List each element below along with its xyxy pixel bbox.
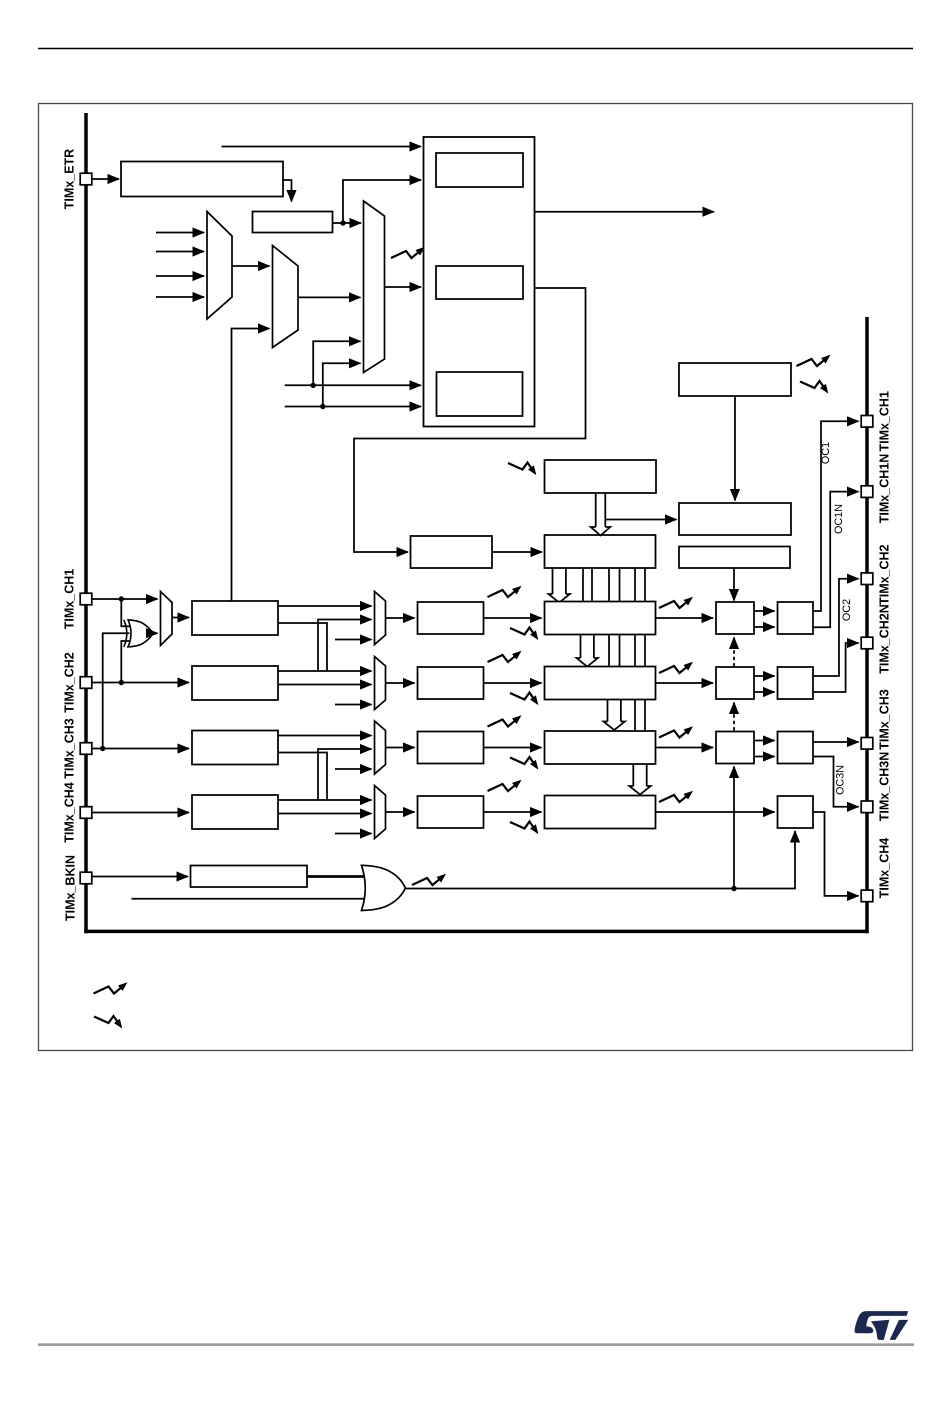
chip boundary bus (left) xyxy=(84,113,88,933)
wire CCR1 to comparator xyxy=(656,617,714,619)
node TI2FP2 junction xyxy=(320,404,325,409)
wire xor to select mux xyxy=(153,632,158,634)
wire TI2FP1 crossover up xyxy=(278,620,372,672)
wire TI1FP1 to trigger mux xyxy=(313,341,360,385)
pin TIMx_ETR xyxy=(80,173,92,185)
channel 2 prescaler ICPS box xyxy=(418,667,484,699)
wire CH3 to xor xyxy=(103,633,130,748)
output stage 1 box xyxy=(778,602,814,634)
wire channel 1 prescaler to capture register xyxy=(484,617,542,619)
wire TI3FP4 crossover down xyxy=(278,753,327,801)
hollow compare arrow to CCR3 xyxy=(607,700,609,722)
capture/compare register 4 box xyxy=(545,796,656,829)
svg-text:TIMx_CH3: TIMx_CH3 xyxy=(63,718,77,778)
channel 2 input mux xyxy=(375,657,386,710)
wire TI1F_ED to TRC mux xyxy=(232,329,270,602)
BKIN polarity box xyxy=(191,866,308,888)
xor gate TI1 selection xyxy=(128,620,153,647)
wire OC2 to pin xyxy=(813,579,859,676)
pin TIMx_CH4 (output) xyxy=(861,890,873,902)
pin TIMx_CH1 xyxy=(80,593,92,605)
wire repetition to output control xyxy=(734,396,736,501)
svg-text:TIMx_ETR: TIMx_ETR xyxy=(63,149,77,209)
channel 3 input mux xyxy=(375,721,386,774)
wire break to OC4 stage xyxy=(734,831,795,889)
node CH3 junction xyxy=(100,746,105,751)
wire break gate output xyxy=(405,888,734,890)
channel 3 prescaler ICPS box xyxy=(418,732,484,764)
pin TIMx_CH2 (output) xyxy=(861,573,873,585)
wire channel 4 mux to prescaler xyxy=(386,811,415,813)
mux TRC selection xyxy=(273,246,299,348)
counter compare bus lines xyxy=(582,568,584,603)
wire CH1 to xor xyxy=(121,599,129,626)
svg-text:TIMx_CH2: TIMx_CH2 xyxy=(63,652,77,712)
wire ITR1 stub xyxy=(156,251,204,253)
pin TIMx_CH3 xyxy=(80,743,92,755)
trigger controller sub-box xyxy=(436,153,523,187)
svg-text:TIMx_CH4: TIMx_CH4 xyxy=(63,782,77,842)
wire OC3N to pin xyxy=(813,757,859,807)
wire OC1N to pin xyxy=(813,492,859,628)
wire TRC stub to channel 4 mux xyxy=(335,833,372,835)
svg-text:OC3N: OC3N xyxy=(835,765,847,795)
wire CH4 pin to filter xyxy=(92,812,189,814)
wire OC3 to pin xyxy=(813,741,859,743)
wire channel 3 mux to prescaler xyxy=(386,747,415,749)
capture/compare register 2 box xyxy=(545,667,656,700)
chip boundary bus (right) xyxy=(865,317,869,933)
output stage 2 box xyxy=(778,667,814,699)
zigzag break interrupt xyxy=(412,878,440,885)
node CH1 junction xyxy=(119,596,124,601)
zigzag auto-reload update event xyxy=(508,463,532,470)
channel 1 prescaler ICPS box xyxy=(418,602,484,634)
chip boundary bus (bottom) xyxy=(84,930,869,934)
zigzag channel 4 capture interrupt xyxy=(488,784,516,791)
pin TIMx_CH1N (output) xyxy=(861,486,873,498)
wire TI2FP2 to encoder interface xyxy=(285,406,421,408)
capture/compare register 3 box xyxy=(545,731,656,764)
wire comparator 3 to output stage (b) xyxy=(754,756,775,758)
wire update to output-control xyxy=(606,519,677,521)
channel 4 prescaler ICPS box xyxy=(418,796,484,828)
node break junction xyxy=(731,886,736,891)
prescaler PSC box xyxy=(411,536,493,568)
zigzag trigger interrupt xyxy=(391,251,419,258)
svg-text:TIMx_CH4: TIMx_CH4 xyxy=(878,838,892,898)
dashed link OC2 to OC1 stage xyxy=(733,638,735,667)
wire ITR3 stub xyxy=(156,296,204,298)
encoder interface sub-box xyxy=(437,372,523,416)
zigzag compare 4 interrupt xyxy=(659,795,687,802)
channel 1 input mux xyxy=(375,592,386,645)
or gate break request xyxy=(362,865,406,910)
wire CH3 pin to filter xyxy=(92,748,189,750)
wire CCR3 to comparator xyxy=(656,747,714,749)
wire select mux to CH1 filter xyxy=(172,617,189,619)
svg-text:TIMx_BKIN: TIMx_BKIN xyxy=(64,855,78,921)
controller block (trigger/slave-mode/encoder) xyxy=(424,137,535,427)
node TI1FP1 junction xyxy=(311,383,316,388)
wire OC2N to pin xyxy=(813,643,859,692)
zigzag compare 1 interrupt xyxy=(659,601,687,608)
wire CK_CNT xyxy=(492,551,542,553)
counter CNT box xyxy=(545,535,656,568)
zigzag channel 3 capture event xyxy=(510,757,534,764)
svg-text:OC2: OC2 xyxy=(841,599,853,621)
zigzag channel 2 capture event xyxy=(510,693,534,700)
wire polarity box to input filter box xyxy=(283,180,292,202)
wire crossover to mux 4 xyxy=(318,799,372,801)
hollow update arrow ARR to CNT xyxy=(595,493,597,527)
pin TIMx_CH2N (output) xyxy=(861,637,873,649)
wire channel 4 prescaler to capture register xyxy=(484,811,542,813)
hollow compare arrow to CCR4 xyxy=(632,764,634,786)
wire TRC to trigger mux xyxy=(298,296,361,298)
node ETRF junction xyxy=(340,220,345,225)
slave mode controller sub-box xyxy=(436,266,523,299)
mux CH1 xor-select xyxy=(161,592,173,646)
page top rule xyxy=(38,48,913,50)
wire ITR0 stub xyxy=(156,232,204,234)
wire CH1 pin to xor-select mux xyxy=(92,598,157,600)
auto-reload register box xyxy=(545,460,657,493)
wire output control to OC1 stage xyxy=(733,568,735,601)
wire ITR2 stub xyxy=(156,275,204,277)
wire TRC stub to channel 3 mux xyxy=(335,768,372,770)
wire TI2FP2 to trigger mux xyxy=(323,363,361,406)
wire TRGI to controller xyxy=(385,286,422,288)
wire break to OC3 stage xyxy=(733,767,735,889)
zigzag channel 4 capture event xyxy=(510,822,534,829)
pin TIMx_CH4 xyxy=(80,807,92,819)
output stage 3 box xyxy=(778,732,814,764)
svg-text:OC1N: OC1N xyxy=(833,504,845,534)
svg-text:OC1: OC1 xyxy=(820,442,832,464)
wire ETRF up to controller xyxy=(343,180,421,223)
comparator 2 box xyxy=(716,667,754,699)
counter bus lines below CCR2 xyxy=(634,700,636,732)
wire channel 2 prescaler to capture register xyxy=(484,682,542,684)
zigzag channel 1 capture interrupt xyxy=(488,590,516,597)
output control preload box xyxy=(679,503,791,535)
wire CSS stub to break gate xyxy=(132,898,365,900)
mux ITR selection xyxy=(207,212,232,320)
wire TI1FP1 to mux 1 xyxy=(278,605,372,607)
svg-text:TIMx_CH2N: TIMx_CH2N xyxy=(878,604,892,673)
wire channel 3 prescaler to capture register xyxy=(484,747,542,749)
svg-text:TIMx_CH3: TIMx_CH3 xyxy=(878,689,892,749)
wire TI4FP3 crossover up xyxy=(278,749,372,800)
comparator 1 box xyxy=(716,602,754,634)
wire channel 1 mux to prescaler xyxy=(386,617,415,619)
wire crossover to mux 2 xyxy=(318,670,372,672)
wire ITR mux to TRC mux xyxy=(232,265,270,267)
zigzag repetition interrupt xyxy=(797,359,825,366)
wire ETR pin to polarity box xyxy=(92,178,119,180)
channel 3 input filter box xyxy=(192,731,278,765)
ST logo xyxy=(854,1311,908,1333)
wire TI4FP4 to mux 4 xyxy=(278,813,372,815)
wire TRGO output xyxy=(535,211,715,213)
output control active box xyxy=(679,547,790,569)
wire comparator 3 to output stage (a) xyxy=(754,740,775,742)
channel 4 input mux xyxy=(375,786,386,839)
output stage 4 box xyxy=(778,796,814,828)
node CH2 junction xyxy=(119,680,124,685)
pin TIMx_CH3 (output) xyxy=(861,738,873,750)
wire BKIN pin to polarity box xyxy=(92,876,188,878)
wire ETRF to trigger mux xyxy=(333,222,362,224)
wire comparator 2 to output stage (a) xyxy=(754,675,775,677)
wire CH2 pin to filter xyxy=(92,682,189,684)
channel 4 input filter box xyxy=(192,795,278,829)
svg-text:TIMx_CH1: TIMx_CH1 xyxy=(878,391,892,451)
wire comparator 2 to output stage (b) xyxy=(754,691,775,693)
svg-text:TIMx_CH1: TIMx_CH1 xyxy=(63,569,77,629)
dashed link OC3 to OC2 stage xyxy=(733,703,735,731)
pin TIMx_CH3N (output) xyxy=(861,801,873,813)
pin TIMx_CH2 xyxy=(80,677,92,689)
zigzag compare 3 interrupt xyxy=(659,731,687,738)
channel 2 input filter box xyxy=(192,666,278,700)
legend zigzag interrupt/DMA xyxy=(94,987,122,994)
legend zigzag event xyxy=(94,1016,118,1023)
comparator 3 box xyxy=(716,732,754,764)
ETR polarity/edge-detector/prescaler box xyxy=(121,162,283,197)
repetition counter box xyxy=(679,363,791,396)
wire channel 2 mux to prescaler xyxy=(386,682,415,684)
svg-text:TIMx_CH1N: TIMx_CH1N xyxy=(878,454,892,523)
wire TRC stub to channel 1 mux xyxy=(335,639,372,641)
figure frame xyxy=(39,104,913,1051)
wire TRC stub to channel 2 mux xyxy=(335,704,372,706)
svg-text:TIMx_CH3N: TIMx_CH3N xyxy=(878,752,892,821)
wire controller to CK_PSC xyxy=(354,288,586,552)
wire TI3FP3 to mux 3 xyxy=(278,735,372,737)
ETR input filter box xyxy=(253,212,333,233)
pin TIMx_BKIN xyxy=(80,872,92,884)
wire OC1 to pin xyxy=(813,421,859,611)
zigzag compare 2 interrupt xyxy=(659,666,687,673)
wire comparator 1 to output stage (a) xyxy=(754,610,775,612)
page bottom rule xyxy=(38,1343,914,1346)
wire TI1FP1 to encoder interface xyxy=(285,384,421,386)
wire OC4 to pin xyxy=(813,812,859,896)
zigzag channel 3 capture interrupt xyxy=(488,720,516,727)
wire BKIN polarity to break gate xyxy=(307,875,364,878)
wire CH2 to xor xyxy=(121,641,129,683)
counter bus lines below CCR1 xyxy=(608,636,610,669)
pin TIMx_CH1 (output) xyxy=(861,416,873,428)
wire CCR4 to output stage xyxy=(656,811,775,813)
wire TI1FP2 crossover down xyxy=(278,623,327,671)
hollow compare arrow to CCR1 xyxy=(552,568,554,594)
wire TI2FP2 to mux 2 xyxy=(278,684,372,686)
zigzag repetition update xyxy=(800,381,824,388)
wire comparator 1 to output stage (b) xyxy=(754,626,775,628)
mux trigger selection TRGI xyxy=(364,201,385,373)
wire CCR2 to comparator xyxy=(656,682,714,684)
channel 1 input filter box xyxy=(192,601,278,635)
zigzag channel 2 capture interrupt xyxy=(488,655,516,662)
wire CK_INT stub to controller xyxy=(222,146,422,148)
hollow compare arrow to CCR2 xyxy=(580,636,582,659)
capture/compare register 1 box xyxy=(545,602,656,635)
zigzag channel 1 capture event xyxy=(510,628,534,635)
svg-text:TIMx_CH2: TIMx_CH2 xyxy=(878,544,892,604)
